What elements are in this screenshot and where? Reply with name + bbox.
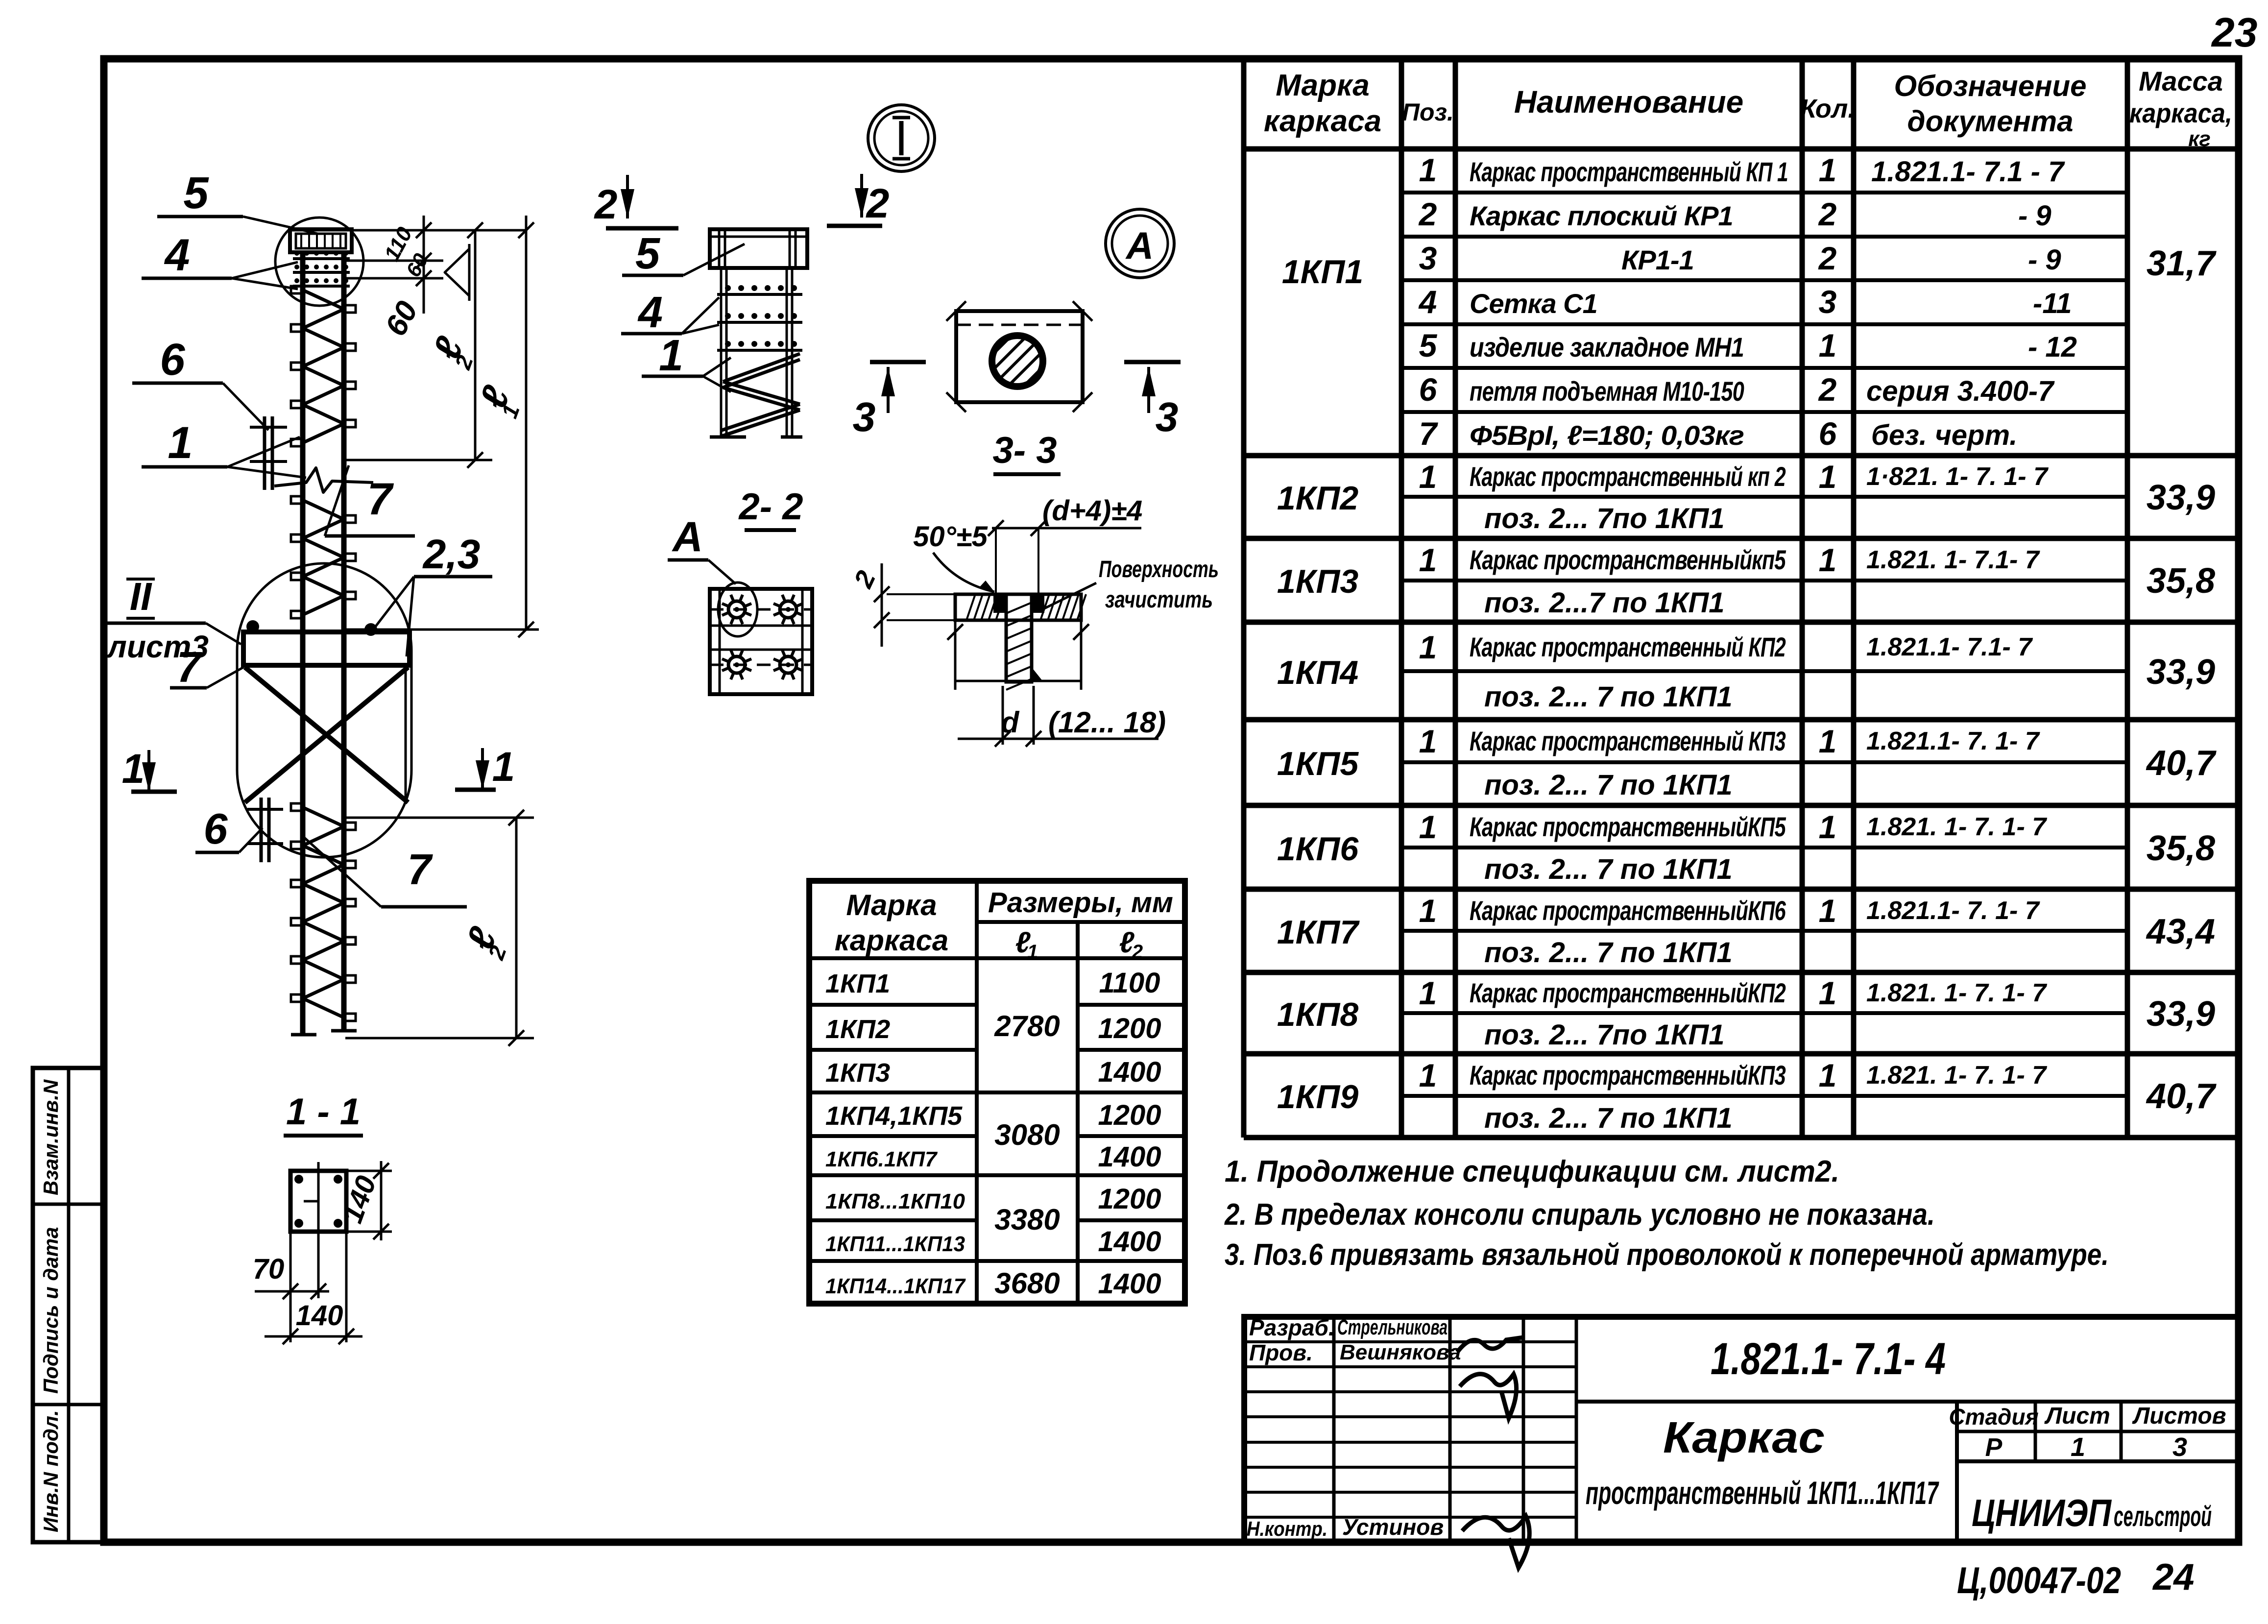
svg-text:5: 5	[183, 168, 209, 218]
spiral wire zigzag, lower run	[291, 803, 356, 1021]
svg-text:1: 1	[1027, 941, 1038, 963]
svg-text:3. Поз.6 привязать вязально: 3. Поз.6 привязать вязальной проволокой …	[1225, 1238, 2109, 1272]
svg-text:2,3: 2,3	[422, 531, 481, 577]
svg-text:1.821.1- 7. 1- 7: 1.821.1- 7. 1- 7	[1866, 727, 2040, 755]
svg-text:поз. 2... 7 по 1КП1: поз. 2... 7 по 1КП1	[1484, 769, 1733, 801]
specification block for mark 1КП9	[1277, 1057, 2217, 1134]
specification block for mark 1КП3	[1277, 542, 2215, 619]
specification block for mark 1КП5	[1277, 723, 2217, 801]
svg-text:1.821. 1- 7. 1- 7: 1.821. 1- 7. 1- 7	[1866, 979, 2047, 1007]
svg-text:1.821. 1- 7. 1- 7: 1.821. 1- 7. 1- 7	[1866, 813, 2047, 841]
svg-text:Марка: Марка	[1276, 69, 1369, 102]
svg-text:70: 70	[253, 1253, 285, 1285]
callout 1 (longitudinal bars)	[142, 418, 306, 478]
svg-text:Лист: Лист	[2044, 1403, 2110, 1429]
side view: section marks 2 with arrows	[594, 174, 890, 228]
svg-text:1: 1	[1819, 152, 1837, 188]
svg-text:Разраб.: Разраб.	[1249, 1315, 1335, 1340]
node A label	[668, 513, 736, 584]
svg-text:документа: документа	[1907, 105, 2074, 138]
svg-text:1КП6: 1КП6	[1277, 830, 1359, 868]
svg-text:без. черт.: без. черт.	[1871, 419, 2017, 451]
svg-text:поз. 2... 7по 1КП1: поз. 2... 7по 1КП1	[1484, 1019, 1725, 1051]
svg-text:6: 6	[204, 804, 228, 853]
svg-text:поз. 2... 7 по 1КП1: поз. 2... 7 по 1КП1	[1484, 1102, 1733, 1134]
svg-text:Каркас пространственныйКП5: Каркас пространственныйКП5	[1470, 811, 1786, 842]
angle 50°±5	[913, 521, 994, 592]
svg-text:петля подъемная М10-150: петля подъемная М10-150	[1470, 376, 1744, 407]
svg-text:3680: 3680	[994, 1267, 1060, 1300]
side view callout 1	[642, 331, 731, 392]
svg-text:35,8: 35,8	[2147, 561, 2215, 601]
dim 140 vertical	[337, 1161, 392, 1240]
svg-text:1: 1	[492, 744, 515, 790]
svg-text:2: 2	[1132, 941, 1143, 963]
svg-text:1400: 1400	[1098, 1141, 1161, 1173]
node A plate detail	[710, 589, 812, 694]
svg-text:зачистить: зачистить	[1105, 587, 1213, 613]
svg-text:1: 1	[1819, 542, 1837, 578]
svg-text:1.821. 1- 7. 1- 7: 1.821. 1- 7. 1- 7	[1866, 1061, 2047, 1090]
svg-text:Поверхность: Поверхность	[1099, 557, 1219, 582]
embedded plate МН1 head (pos 5)	[290, 229, 352, 252]
svg-text:1КП3: 1КП3	[825, 1058, 890, 1088]
svg-text:1200: 1200	[1098, 1013, 1161, 1044]
svg-text:3380: 3380	[994, 1203, 1060, 1236]
svg-text:1КП8...1КП10: 1КП8...1КП10	[825, 1189, 965, 1213]
svg-text:2. В пределах консоли спир: 2. В пределах консоли спираль условно не…	[1224, 1198, 1935, 1232]
svg-text:6: 6	[1819, 415, 1837, 452]
svg-text:сельстрой: сельстрой	[2114, 1501, 2212, 1532]
svg-text:2: 2	[866, 180, 890, 226]
svg-text:3: 3	[2172, 1432, 2187, 1462]
svg-text:Размеры, мм: Размеры, мм	[988, 887, 1173, 919]
specification block for mark 1КП4	[1277, 629, 2215, 713]
svg-text:ЦНИИЭП: ЦНИИЭП	[1972, 1491, 2112, 1534]
svg-text:Каркас пространственныйКП6: Каркас пространственныйКП6	[1470, 895, 1786, 926]
svg-text:- 9: - 9	[2018, 200, 2051, 232]
signature of checker	[1460, 1374, 1517, 1418]
svg-text:1: 1	[1419, 459, 1437, 495]
svg-text:2: 2	[1418, 196, 1437, 232]
detail symbol I (double circle)	[868, 105, 935, 171]
svg-text:Поз.: Поз.	[1402, 98, 1454, 126]
svg-text:7: 7	[1419, 415, 1439, 452]
svg-text:35,8: 35,8	[2147, 829, 2215, 868]
svg-text:Каркас пространственный КП 1: Каркас пространственный КП 1	[1470, 156, 1788, 187]
svg-text:140: 140	[296, 1300, 343, 1332]
svg-text:поз. 2... 7 по 1КП1: поз. 2... 7 по 1КП1	[1484, 681, 1733, 713]
svg-text:Сетка С1: Сетка С1	[1470, 288, 1597, 319]
svg-text:4: 4	[637, 288, 663, 337]
svg-text:1.821.1- 7.1- 4: 1.821.1- 7.1- 4	[1711, 1334, 1946, 1384]
svg-text:поз. 2... 7 по 1КП1: поз. 2... 7 по 1КП1	[1484, 853, 1733, 885]
spatial cage: longitudinal bars (pos 1)	[303, 252, 344, 1034]
svg-text:Вешнякова: Вешнякова	[1340, 1340, 1461, 1364]
svg-text:1·821. 1- 7. 1- 7: 1·821. 1- 7. 1- 7	[1866, 462, 2049, 491]
detail reference II лист3	[106, 575, 241, 664]
svg-text:1КП6.1КП7: 1КП6.1КП7	[825, 1147, 938, 1171]
svg-text:3- 3: 3- 3	[993, 430, 1057, 471]
callout 6 (lower loop)	[195, 804, 263, 853]
size table grid (Марка каркаса / Размеры, мм)	[809, 881, 1185, 1304]
side view mesh lines with dots (pos 4)	[717, 285, 802, 350]
callout 2,3 (console bars)	[371, 531, 492, 656]
svg-text:2- 2: 2- 2	[738, 486, 803, 528]
spiral wire zigzag continued to console	[291, 496, 356, 618]
svg-text:Стрельникова: Стрельникова	[1337, 1315, 1448, 1339]
svg-text:33,9: 33,9	[2147, 994, 2215, 1034]
svg-text:6: 6	[1419, 371, 1438, 408]
svg-text:1КП4,1КП5: 1КП4,1КП5	[825, 1101, 963, 1131]
section title 3-3	[993, 430, 1061, 474]
svg-text:1400: 1400	[1098, 1056, 1161, 1088]
label поверхность зачистить	[1044, 557, 1219, 613]
side view head box (pos 5 plate)	[710, 229, 807, 268]
svg-text:3080: 3080	[994, 1118, 1060, 1151]
section title 2-2	[738, 486, 803, 530]
svg-text:4: 4	[1418, 284, 1437, 320]
side view spiral zigzag (pos 1/7)	[710, 354, 802, 437]
svg-text:1КП8: 1КП8	[1277, 996, 1359, 1033]
svg-text:1КП1: 1КП1	[825, 969, 890, 998]
svg-text:Каркас: Каркас	[1663, 1413, 1825, 1462]
svg-text:1: 1	[1819, 1057, 1837, 1093]
svg-text:1: 1	[1819, 327, 1837, 364]
svg-text:1: 1	[1819, 809, 1837, 845]
svg-text:3: 3	[1419, 240, 1437, 276]
svg-text:Каркас пространственный кп 2: Каркас пространственный кп 2	[1470, 461, 1786, 492]
svg-text:1200: 1200	[1098, 1099, 1161, 1131]
specification table header text	[1264, 66, 2232, 151]
callout 6 (upper loop)	[132, 335, 268, 430]
svg-text:Наименование: Наименование	[1514, 84, 1743, 120]
svg-text:1.821. 1- 7.1- 7: 1.821. 1- 7.1- 7	[1866, 546, 2040, 574]
svg-text:- 9: - 9	[2028, 244, 2061, 276]
svg-text:6: 6	[160, 335, 185, 385]
svg-text:1: 1	[1419, 975, 1437, 1011]
weld detail break lines	[947, 620, 1089, 690]
node A detail ellipse	[718, 582, 757, 636]
weld metal squares	[993, 593, 1044, 613]
svg-text:1. Продолжение спецификации: 1. Продолжение спецификации см. лист2.	[1225, 1155, 1839, 1188]
svg-text:поз. 2... 7 по 1КП1: поз. 2... 7 по 1КП1	[1484, 937, 1733, 969]
svg-text:1: 1	[1419, 809, 1437, 845]
detail stadium II boundary	[237, 563, 411, 857]
svg-text:Р: Р	[1985, 1433, 2003, 1462]
lifting loop (pos 6) lower	[247, 798, 283, 862]
svg-text:2780: 2780	[994, 1010, 1060, 1042]
dim d and (12...18)	[958, 686, 1166, 747]
svg-text:1КП3: 1КП3	[1277, 563, 1359, 600]
top extension line at cage head	[290, 229, 526, 232]
svg-text:43,4: 43,4	[2146, 912, 2215, 951]
callout 4 (mesh)	[142, 230, 298, 289]
svg-text:2: 2	[1818, 371, 1837, 408]
svg-text:А: А	[672, 513, 703, 560]
side view vertical bars	[721, 268, 792, 437]
svg-text:1КП9: 1КП9	[1277, 1078, 1359, 1115]
svg-text:1: 1	[1419, 629, 1437, 665]
section 1-1 title	[284, 1091, 363, 1136]
svg-text:1400: 1400	[1098, 1226, 1161, 1258]
dim 70 horizontal	[253, 1232, 329, 1342]
svg-text:1100: 1100	[1099, 967, 1160, 999]
rebar cross bar vertical (hatched)	[1006, 594, 1043, 690]
svg-text:1: 1	[1819, 975, 1837, 1011]
break symbol on column	[274, 468, 373, 492]
svg-text:II: II	[130, 575, 152, 618]
side view callout 4	[621, 288, 719, 337]
callout 7 (spiral upper)	[325, 465, 415, 536]
specification block for mark 1КП7	[1277, 893, 2215, 969]
svg-text:7: 7	[177, 643, 203, 691]
svg-text:1 - 1: 1 - 1	[286, 1091, 361, 1133]
notes text	[1224, 1155, 2109, 1272]
svg-text:А: А	[1125, 224, 1154, 267]
svg-text:1400: 1400	[1098, 1268, 1161, 1300]
svg-text:40,7: 40,7	[2146, 744, 2217, 783]
section 3-3 bar circle (hatched)	[957, 300, 1078, 422]
specification table grid	[1244, 59, 2239, 1138]
svg-text:40,7: 40,7	[2146, 1077, 2217, 1116]
section mark 1 (left)	[122, 746, 177, 792]
svg-text:Каркас плоский КР1: Каркас плоский КР1	[1470, 200, 1733, 231]
small spacing dims 110/60/60	[345, 216, 469, 341]
svg-text:каркаса: каркаса	[835, 924, 948, 957]
dimension l1	[343, 216, 539, 637]
svg-text:серия 3.400-7: серия 3.400-7	[1866, 375, 2055, 407]
title block text	[1247, 1315, 2226, 1568]
svg-text:каркаса,: каркаса,	[2129, 97, 2232, 128]
callout 5 (embedded plate)	[157, 168, 318, 234]
svg-text:1: 1	[168, 418, 193, 468]
svg-text:d: d	[1001, 706, 1020, 739]
svg-text:Стадия: Стадия	[1949, 1404, 2038, 1430]
svg-text:7: 7	[367, 474, 394, 524]
svg-text:1.821.1- 7.1- 7: 1.821.1- 7.1- 7	[1866, 633, 2033, 661]
svg-text:50°±5: 50°±5	[913, 521, 988, 553]
svg-text:- 12: - 12	[2028, 331, 2077, 363]
svg-text:1КП2: 1КП2	[825, 1015, 890, 1044]
svg-text:Каркас пространственныйКП3: Каркас пространственныйКП3	[1470, 1060, 1786, 1091]
svg-text:1: 1	[1419, 893, 1437, 929]
svg-text:Каркас пространственныйкп5: Каркас пространственныйкп5	[1470, 544, 1786, 575]
svg-text:КР1-1: КР1-1	[1621, 244, 1694, 275]
detail symbol A (double circle)	[1106, 209, 1174, 278]
svg-text:1: 1	[1819, 723, 1837, 759]
svg-text:Листов: Листов	[2132, 1403, 2226, 1429]
svg-text:изделие закладное МН1: изделие закладное МН1	[1470, 332, 1744, 363]
svg-text:Инв.N подл.: Инв.N подл.	[39, 1410, 62, 1532]
svg-text:Взам.инв.N: Взам.инв.N	[39, 1079, 62, 1195]
console X bracing	[245, 665, 408, 803]
dim 140 horizontal	[265, 1232, 362, 1344]
svg-text:33,9: 33,9	[2147, 653, 2215, 692]
svg-text:1.821.1- 7. 1- 7: 1.821.1- 7. 1- 7	[1866, 897, 2040, 925]
specification rows for mark 1КП1	[1282, 152, 2217, 452]
svg-text:1: 1	[2071, 1432, 2085, 1462]
cage bottom end ticks	[291, 1031, 357, 1035]
svg-text:Масса: Масса	[2139, 66, 2223, 97]
spiral wire zigzag (pos 7), upper run	[291, 286, 356, 446]
svg-text:2: 2	[594, 181, 618, 227]
svg-text:1КП11...1КП13: 1КП11...1КП13	[825, 1232, 965, 1256]
svg-text:1: 1	[1819, 893, 1837, 929]
weld detail plate	[955, 594, 1086, 620]
svg-text:(d+4)±4: (d+4)±4	[1042, 495, 1142, 527]
svg-text:33,9: 33,9	[2147, 478, 2215, 517]
svg-text:Устинов: Устинов	[1342, 1514, 1444, 1540]
svg-text:1КП7: 1КП7	[1277, 914, 1360, 951]
svg-text:Марка: Марка	[846, 889, 937, 921]
svg-text:1: 1	[1419, 542, 1437, 578]
svg-text:Пров.: Пров.	[1249, 1340, 1313, 1365]
dimension l2 (upper)	[345, 222, 492, 468]
signature of norm controller	[1462, 1516, 1529, 1568]
svg-text:(12... 18): (12... 18)	[1048, 706, 1166, 739]
svg-text:1КП14...1КП17: 1КП14...1КП17	[825, 1274, 966, 1298]
svg-text:2: 2	[1818, 240, 1837, 276]
svg-text:1200: 1200	[1098, 1183, 1161, 1215]
specification block for mark 1КП8	[1277, 975, 2215, 1051]
callout 7 (console corner)	[170, 643, 243, 691]
dim 2 (plate thickness)	[848, 563, 955, 647]
svg-text:Каркас пространственныйКП2: Каркас пространственныйКП2	[1470, 977, 1786, 1008]
dim (d+4)±4	[988, 495, 1142, 593]
svg-text:Кол.: Кол.	[1800, 94, 1856, 123]
svg-text:пространственный 1КП1...1КП17: пространственный 1КП1...1КП17	[1586, 1475, 1939, 1511]
svg-text:1.821.1- 7.1 - 7: 1.821.1- 7.1 - 7	[1871, 156, 2065, 188]
svg-text:Обозначение: Обозначение	[1894, 70, 2086, 102]
svg-text:1: 1	[659, 331, 683, 380]
svg-text:1КП1: 1КП1	[1282, 253, 1363, 291]
svg-text:1: 1	[1419, 1057, 1437, 1093]
svg-text:1: 1	[1419, 723, 1437, 759]
svg-text:3: 3	[1819, 284, 1837, 320]
svg-text:поз. 2...7 по 1КП1: поз. 2...7 по 1КП1	[1484, 587, 1725, 619]
svg-text:Подпись и дата: Подпись и дата	[39, 1227, 62, 1394]
section mark 1 (right)	[455, 744, 515, 790]
svg-text:3: 3	[1156, 394, 1179, 440]
callout 7 (spiral lower)	[302, 836, 467, 907]
svg-text:1КП5: 1КП5	[1277, 745, 1359, 782]
svg-text:7: 7	[408, 845, 434, 894]
svg-text:1: 1	[1419, 152, 1437, 188]
svg-text:Ц,00047-02: Ц,00047-02	[1957, 1560, 2121, 1601]
svg-text:5: 5	[635, 229, 661, 278]
svg-text:-11: -11	[2033, 288, 2072, 319]
section 3-3 view rectangle	[946, 301, 1092, 412]
svg-text:1: 1	[122, 746, 145, 792]
svg-text:Ф5ВрI, ℓ=180; 0,03кг: Ф5ВрI, ℓ=180; 0,03кг	[1470, 420, 1744, 451]
svg-text:31,7: 31,7	[2147, 244, 2217, 283]
svg-text:5: 5	[1419, 327, 1438, 364]
section marks 3 with up arrows	[853, 362, 1181, 440]
specification block for mark 1КП2	[1277, 459, 2215, 534]
lifting loop (pos 6) upper	[250, 416, 287, 490]
title block grid	[1244, 1317, 2239, 1542]
svg-text:4: 4	[164, 230, 190, 280]
svg-text:Н.контр.: Н.контр.	[1247, 1517, 1327, 1540]
svg-text:поз. 2... 7по 1КП1: поз. 2... 7по 1КП1	[1484, 503, 1725, 534]
svg-text:Каркас пространственный КП3: Каркас пространственный КП3	[1470, 726, 1786, 756]
side view callout 5	[622, 229, 745, 278]
svg-text:24: 24	[2152, 1556, 2195, 1598]
plug weld symbols (suns)	[722, 595, 803, 679]
svg-text:1: 1	[1819, 459, 1837, 495]
svg-text:Каркас пространственный КП2: Каркас пространственный КП2	[1470, 631, 1786, 662]
svg-text:каркаса: каркаса	[1264, 104, 1381, 138]
svg-text:1КП2: 1КП2	[1277, 480, 1359, 517]
mesh C1 layers with dots (pos 4)	[293, 251, 350, 286]
size table text	[825, 887, 1173, 1300]
signature of developer	[1457, 1337, 1523, 1352]
detail circle I boundary	[275, 218, 363, 306]
console box (detail II)	[243, 620, 410, 665]
svg-text:2: 2	[1818, 196, 1837, 232]
specification block for mark 1КП6	[1277, 809, 2215, 885]
left margin stamp column (Взам.инв.N / Подпись и дата / Инв.N подл.)	[33, 1068, 104, 1542]
svg-text:23: 23	[2211, 9, 2257, 55]
svg-text:1КП4: 1КП4	[1277, 654, 1358, 691]
svg-text:3: 3	[853, 394, 876, 440]
section 1-1 square	[290, 1162, 346, 1254]
dimension l2 (lower)	[345, 810, 534, 1046]
svg-text:кг: кг	[2188, 127, 2211, 151]
